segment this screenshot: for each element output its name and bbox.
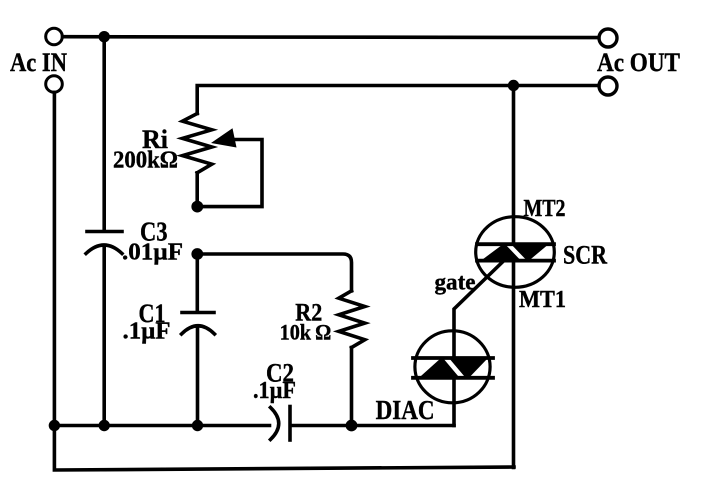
capacitor C3 curved plate: [86, 245, 122, 254]
node junction R2 to bus: [346, 420, 358, 432]
node junction SCR tap: [508, 80, 519, 91]
wire C1 branch (R2 tap down to C1): [196, 254, 200, 311]
svg-text:SCR: SCR: [563, 241, 607, 270]
capacitor C2 straight plate: [288, 407, 292, 441]
svg-text:Ac IN: Ac IN: [10, 48, 67, 77]
svg-text:Ac OUT: Ac OUT: [597, 48, 680, 77]
svg-text:.1µF: .1µF: [123, 319, 171, 345]
capacitor C1 curved plate: [182, 326, 215, 334]
wire R2 bottom lead: [350, 348, 354, 426]
wire bottom bus right (C2 to DIAC): [291, 424, 455, 428]
terminal Ac OUT top: [599, 29, 617, 47]
wire C3 branch (top junction down to C3 top plate): [102, 37, 106, 231]
diac bottom bar: [413, 376, 493, 380]
triac SCR white gap between triangles: [507, 243, 526, 262]
wire SCR vertical (MT2 lead through to MT1 lead): [512, 86, 516, 468]
capacitor C3 top plate: [87, 230, 122, 234]
diac top bar: [413, 356, 493, 360]
wire C3 bottom lead: [102, 248, 106, 426]
terminal Ac IN top: [46, 28, 63, 45]
svg-text:.01µF: .01µF: [122, 240, 183, 266]
node junction C1 to bus: [192, 420, 203, 431]
node junction R1 wiper: [191, 201, 203, 213]
wire R1 bottom lead: [195, 173, 199, 207]
wire R1 wiper loop: [198, 140, 263, 207]
terminal Ac OUT bottom: [599, 77, 617, 95]
wire bottom bus left (to C2): [54, 424, 269, 428]
wire R2 branch (from junction to R2 top): [197, 254, 351, 291]
svg-text:MT1: MT1: [519, 287, 566, 313]
wire second bus (R1 top corner to Ac OUT bottom): [197, 86, 599, 114]
svg-text:200kΩ: 200kΩ: [113, 148, 178, 174]
diac triangles band: [419, 358, 488, 378]
node junction bottom-left corner: [49, 420, 60, 431]
triac SCR top bar: [477, 242, 554, 246]
triac SCR triangles band: [481, 244, 549, 260]
triac SCR body circle: [476, 217, 555, 288]
node junction top (C3 tap): [99, 31, 110, 42]
wire bottom return (to SCR MT1): [54, 426, 514, 471]
terminal Ac IN bottom: [46, 76, 63, 93]
capacitor C1 top plate: [182, 311, 214, 315]
wire Ac IN bottom lead: [53, 92, 57, 425]
svg-text:MT2: MT2: [524, 196, 566, 222]
wire C1 bottom lead: [196, 329, 200, 426]
node junction C3 to bus: [99, 420, 110, 431]
capacitor C2 curved plate: [271, 408, 279, 440]
svg-text:gate: gate: [435, 270, 476, 295]
diac body circle: [415, 331, 490, 403]
wire gate (SCR gate to DIAC): [454, 262, 503, 426]
wiper arrow of R1: [211, 128, 237, 147]
diac white gap between triangles: [445, 356, 465, 379]
resistor R2 zigzag body: [339, 291, 365, 348]
wire top bus (Ac IN top to Ac OUT top): [63, 35, 599, 39]
resistor R1 zigzag body: [183, 114, 212, 173]
triac SCR bottom bar: [477, 259, 554, 263]
node junction R2 branch: [191, 248, 203, 260]
svg-text:10k Ω: 10k Ω: [280, 319, 332, 344]
svg-text:.1µF: .1µF: [253, 378, 296, 404]
svg-text:DIAC: DIAC: [376, 395, 435, 425]
